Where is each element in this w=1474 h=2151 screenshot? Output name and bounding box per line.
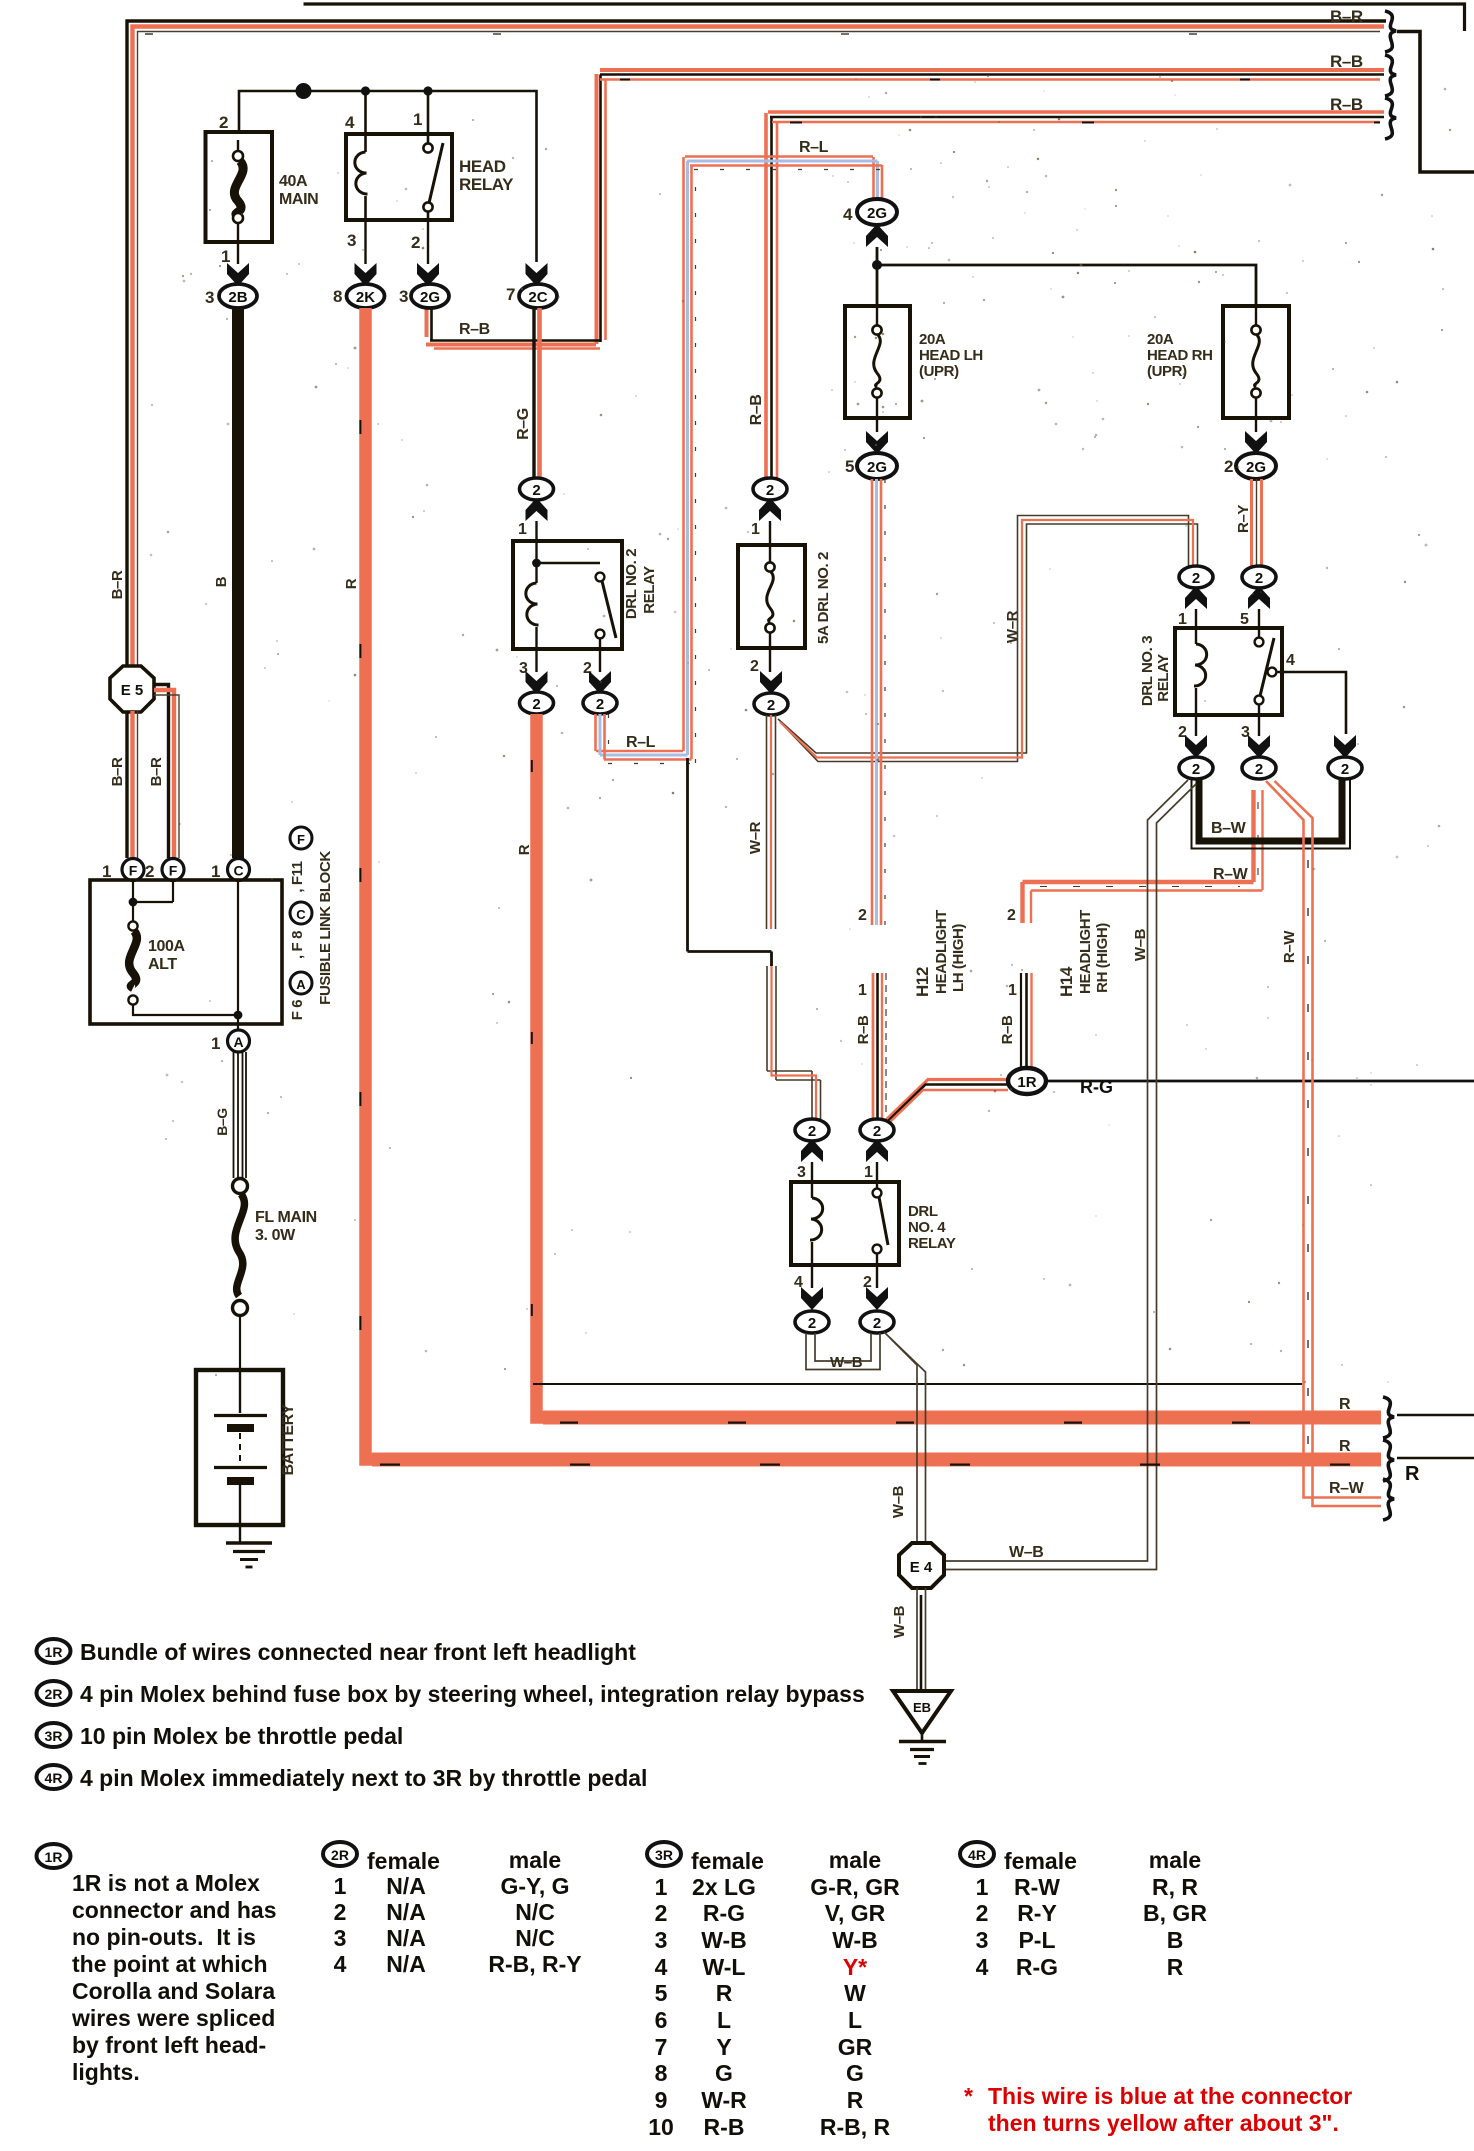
connector circle F2: [162, 859, 184, 881]
svg-text:G: G: [846, 2060, 864, 2086]
svg-text:V, GR: V, GR: [825, 1900, 886, 1926]
fusible link side label F6A F8C F11F: [289, 827, 312, 1020]
relay HEAD RELAY: [346, 134, 514, 220]
wire B (2B to fusible link C): [232, 308, 244, 858]
svg-text:5: 5: [655, 1980, 668, 2006]
svg-text:A: A: [296, 977, 306, 992]
table 1R oval: [37, 1844, 71, 1868]
svg-text:N/A: N/A: [386, 1951, 426, 1977]
svg-text:3R: 3R: [45, 1728, 63, 1744]
relay DRL NO.3: [1175, 628, 1346, 734]
connector arrow up (DRL4 pin3): [801, 1139, 823, 1162]
brace R lower: [1383, 1440, 1394, 1481]
svg-text:C: C: [296, 907, 306, 922]
svg-text:, F11: , F11: [289, 861, 306, 892]
junction big dot: [296, 83, 312, 99]
svg-text:2: 2: [532, 482, 540, 499]
svg-text:1: 1: [751, 521, 760, 538]
connector oval 2 (5A pin2): [754, 693, 788, 715]
svg-text:2: 2: [1341, 761, 1349, 778]
svg-text:(UPR): (UPR): [1147, 363, 1187, 380]
svg-text:5: 5: [1240, 611, 1249, 628]
svg-text:1: 1: [102, 862, 111, 881]
wire 2G bus to fuses: [877, 247, 1256, 306]
svg-text:W–B: W–B: [890, 1485, 907, 1518]
svg-text:female: female: [691, 1848, 764, 1874]
connector oval 2 (DRL2 pin3): [520, 692, 554, 714]
svg-text:1: 1: [858, 982, 867, 999]
svg-text:F: F: [129, 863, 138, 879]
svg-text:LH (HIGH): LH (HIGH): [950, 924, 967, 992]
wire W-R (5A to DRL3, diagonal+up): [778, 516, 1198, 762]
wire W-B (DRL3 pin2 to E4 horizontal): [944, 780, 1196, 1570]
connector arrow 2K: [355, 263, 377, 286]
note 1R header oval: [37, 1639, 71, 1663]
svg-text:R: R: [343, 578, 360, 589]
scan dash artifacts: [145, 34, 1380, 1465]
fusible link internals 100A ALT: [128, 880, 242, 1030]
svg-text:100A: 100A: [148, 938, 185, 955]
connector oval 2 (DRL3 pin4): [1328, 757, 1362, 779]
svg-text:N/C: N/C: [515, 1899, 555, 1925]
connector oval 2G (bottom of LH fuse): [857, 453, 897, 479]
svg-text:20A: 20A: [919, 331, 946, 348]
connector oval 2G (bottom of RH fuse): [1236, 453, 1276, 479]
svg-text:3: 3: [347, 231, 356, 250]
svg-text:BATTERY: BATTERY: [280, 1404, 297, 1476]
svg-text:6: 6: [655, 2007, 668, 2033]
svg-text:1: 1: [976, 1874, 989, 1900]
svg-text:B, GR: B, GR: [1143, 1900, 1207, 1926]
svg-text:2B: 2B: [228, 289, 247, 306]
svg-text:R: R: [516, 844, 533, 855]
wire 40A to 2B: [237, 242, 239, 264]
svg-text:GR: GR: [838, 2034, 873, 2060]
brace B-R: [1385, 11, 1396, 52]
svg-text:G-Y, G: G-Y, G: [500, 1873, 569, 1899]
svg-text:C: C: [233, 863, 243, 879]
svg-text:B: B: [213, 576, 230, 587]
svg-text:E 4: E 4: [910, 1559, 933, 1576]
svg-text:1: 1: [1178, 611, 1187, 628]
wire W-B (DRL4 pin2 to E4): [884, 1332, 926, 1543]
svg-text:DRL NO. 2: DRL NO. 2: [623, 549, 640, 619]
svg-text:R, R: R, R: [1152, 1874, 1198, 1900]
svg-text:3: 3: [976, 1927, 989, 1953]
connector circle A: [228, 1030, 250, 1052]
svg-text:2: 2: [596, 696, 604, 713]
svg-text:R-B, R: R-B, R: [820, 2114, 891, 2140]
wire 5A pin2 down: [769, 648, 771, 672]
svg-text:1: 1: [518, 521, 527, 538]
svg-text:1: 1: [413, 110, 422, 129]
black line after upper brace: [1397, 1414, 1474, 1417]
connector arrow up (5A pin1): [759, 498, 781, 521]
junction dot: [361, 86, 370, 95]
connector circle C: [228, 859, 250, 881]
connector oval 2 (DRL4 pin3 top): [795, 1119, 829, 1141]
connector arrow (2 2G): [1245, 431, 1267, 454]
connector arrow 2G: [417, 263, 439, 286]
svg-text:4: 4: [843, 205, 853, 224]
junction dot: [423, 86, 432, 95]
wire R-B no2 (from fuse 5A up to right): [766, 112, 1384, 478]
wire R (DRL2 pin3 down to upper R horizontal): [537, 714, 1382, 1418]
connector arrow (DRL3 pin3): [1248, 735, 1270, 758]
svg-text:2: 2: [411, 233, 420, 252]
table 2R oval: [323, 1842, 357, 1866]
connector oval 2G (top of 20A LH): [857, 199, 897, 225]
svg-text:8: 8: [655, 2060, 668, 2086]
svg-text:W–R: W–R: [1004, 610, 1021, 643]
svg-text:R–L: R–L: [626, 734, 656, 751]
svg-text:2: 2: [655, 1900, 668, 1926]
svg-text:HEAD: HEAD: [459, 157, 506, 176]
svg-text:R–B: R–B: [1330, 52, 1363, 71]
svg-text:R–B: R–B: [748, 395, 765, 426]
connector arrow (DRL4 pin4): [801, 1287, 823, 1310]
black line after lower brace: [1397, 1457, 1474, 1460]
svg-text:male: male: [829, 1847, 881, 1873]
brace R-W: [1383, 1479, 1394, 1520]
connector oval 2 (DRL3 pin2): [1179, 757, 1213, 779]
svg-text:R–B: R–B: [999, 1015, 1016, 1044]
connector arrow (DRL3 pin2): [1185, 735, 1207, 758]
svg-text:R: R: [716, 1980, 733, 2006]
svg-text:connector and has: connector and has: [72, 1897, 276, 1923]
svg-text:3: 3: [797, 1164, 806, 1181]
svg-text:EB: EB: [913, 1700, 931, 1715]
svg-text:DRL NO. 3: DRL NO. 3: [1139, 636, 1156, 706]
wires DRL4 pins down: [812, 1265, 877, 1288]
node 1R: [1008, 1068, 1046, 1094]
svg-text:F 6: F 6: [289, 1000, 306, 1021]
svg-text:RELAY: RELAY: [1155, 654, 1172, 702]
bus wire from 40A to HEAD RELAY and 2C: [239, 91, 537, 262]
connector oval 2 (above DRL2 pin1): [520, 478, 554, 500]
svg-text:B–W: B–W: [1211, 820, 1247, 837]
svg-text:B: B: [1167, 1927, 1184, 1953]
connector arrow up (DRL3 pin5): [1248, 586, 1270, 609]
svg-text:3: 3: [334, 1925, 347, 1951]
connector arrow 2C: [526, 263, 548, 286]
wires DRL3 pins down: [1196, 715, 1259, 736]
fuse 5A DRL NO.2: [738, 545, 805, 648]
svg-text:2: 2: [145, 862, 154, 881]
svg-text:2: 2: [1224, 457, 1233, 476]
connector arrow up (2G): [866, 224, 888, 247]
svg-text:N/A: N/A: [386, 1925, 426, 1951]
brace R-B no2: [1385, 98, 1396, 139]
svg-text:4: 4: [655, 1954, 668, 1980]
svg-text:3: 3: [655, 1927, 668, 1953]
svg-text:R-G: R-G: [703, 1900, 745, 1926]
table 4R: [976, 1847, 1208, 1980]
svg-text:1: 1: [221, 247, 230, 266]
svg-text:4 pin Molex behind fuse box by: 4 pin Molex behind fuse box by steering …: [80, 1681, 865, 1707]
svg-text:1: 1: [864, 1164, 873, 1181]
svg-text:40A: 40A: [279, 173, 308, 190]
wire R-G (2C down): [534, 308, 540, 478]
wire black to right edge (after B-R brace): [1397, 32, 1474, 173]
svg-text:4: 4: [976, 1954, 989, 1980]
wire R-B no1 (from 2G oval up to right): [426, 70, 1384, 349]
table 2R: [334, 1847, 582, 1977]
svg-text:2: 2: [334, 1899, 347, 1925]
wire R-W (DRL3 pin3 to H14 pin2): [1023, 790, 1263, 923]
octagon E5: [110, 666, 154, 712]
wire R-B (H14 pin1 down to 1R): [1021, 973, 1032, 1068]
svg-text:3. 0W: 3. 0W: [255, 1227, 296, 1244]
connector arrow (DRL4 pin2): [866, 1287, 888, 1310]
svg-text:then turns yellow after about: then turns yellow after about 3".: [988, 2110, 1339, 2136]
svg-text:DRL: DRL: [908, 1203, 938, 1220]
svg-text:2: 2: [1007, 907, 1016, 924]
svg-text:1: 1: [334, 1873, 347, 1899]
wire W-B (E4 down to EB): [917, 1588, 926, 1690]
svg-text:4R: 4R: [968, 1847, 986, 1863]
wire W-R (5A to DRL4 pin3, vertical): [767, 715, 821, 1119]
scan noise speckles: [150, 75, 1452, 1383]
svg-text:4: 4: [334, 1951, 347, 1977]
svg-text:R: R: [1339, 1438, 1351, 1455]
connector oval 2C: [519, 284, 557, 308]
fuse FL MAIN 3.0W: [233, 1179, 317, 1316]
svg-text:(UPR): (UPR): [919, 363, 959, 380]
svg-text:B–R: B–R: [109, 757, 126, 786]
wire RH fuse to 2-2G: [1255, 418, 1257, 432]
svg-text:W–B: W–B: [1009, 1544, 1043, 1561]
connector arrow (DRL3 pin4): [1334, 735, 1356, 758]
svg-text:H12: H12: [913, 967, 932, 997]
svg-text:Bundle of wires connected near: Bundle of wires connected near front lef…: [80, 1639, 636, 1665]
svg-text:2: 2: [219, 113, 228, 132]
connector oval 2G: [411, 284, 449, 308]
connector oval 2 (DRL4 pin4): [795, 1311, 829, 1333]
svg-text:R-G: R-G: [1080, 1077, 1113, 1097]
svg-text:8: 8: [333, 287, 342, 306]
svg-text:A: A: [233, 1034, 243, 1050]
fuse 20A HEAD LH (UPR): [845, 306, 983, 418]
svg-text:B–R: B–R: [148, 757, 165, 786]
svg-text:FUSIBLE LINK BLOCK: FUSIBLE LINK BLOCK: [317, 851, 334, 1005]
svg-text:W–B: W–B: [1132, 928, 1149, 961]
wire B-R main frame (left vertical + top horizontal): [127, 21, 1386, 668]
wire R-B (H12 pin1 down to DRL4 pin1 oval): [873, 973, 886, 1119]
wire R (2K down to lower R horizontal to right): [366, 308, 1382, 1460]
svg-text:2: 2: [766, 482, 774, 499]
svg-text:2G: 2G: [420, 289, 440, 306]
svg-text:male: male: [1149, 1847, 1201, 1873]
svg-text:by front left head-: by front left head-: [72, 2032, 266, 2058]
svg-text:2R: 2R: [45, 1686, 63, 1702]
svg-text:H14: H14: [1057, 966, 1076, 997]
svg-text:R–G: R–G: [515, 408, 532, 440]
svg-text:2: 2: [532, 696, 540, 713]
svg-text:B–R: B–R: [1330, 7, 1363, 26]
connector oval 2 (above 5A fuse): [753, 478, 787, 500]
svg-text:2: 2: [858, 907, 867, 924]
ground (battery): [226, 1525, 272, 1567]
svg-text:B–G: B–G: [214, 1108, 230, 1136]
svg-text:2: 2: [1255, 761, 1263, 778]
wires into DRL3: [1196, 609, 1259, 628]
svg-text:*: *: [964, 2083, 973, 2109]
connector arrow up (DRL2 pin1): [526, 498, 548, 521]
svg-text:4: 4: [345, 113, 355, 132]
svg-text:N/A: N/A: [386, 1899, 426, 1925]
svg-text:RELAY: RELAY: [908, 1235, 956, 1252]
svg-text:2: 2: [750, 658, 759, 675]
svg-text:MAIN: MAIN: [279, 191, 318, 208]
svg-text:RELAY: RELAY: [641, 566, 658, 614]
wire into 5A fuse: [769, 521, 771, 545]
wire B-W (DRL3 pin2 oval to pin4 oval): [1192, 779, 1351, 849]
wires DRL2 pins down: [537, 649, 601, 672]
svg-text:no pin-outs. It is: no pin-outs. It is: [72, 1924, 256, 1950]
svg-text:2: 2: [767, 697, 775, 714]
connector arrow (DRL2 pin3): [526, 671, 548, 694]
svg-text:ALT: ALT: [148, 956, 177, 973]
svg-text:R–Y: R–Y: [1235, 505, 1252, 533]
svg-text:L: L: [717, 2007, 731, 2033]
svg-text:wires were spliced: wires were spliced: [71, 2005, 275, 2031]
svg-text:HEAD RH: HEAD RH: [1147, 347, 1213, 364]
svg-text:lights.: lights.: [72, 2059, 140, 2085]
svg-text:2: 2: [1192, 761, 1200, 778]
svg-text:R: R: [1405, 1463, 1420, 1485]
svg-text:3: 3: [205, 288, 214, 307]
svg-text:N/A: N/A: [386, 1873, 426, 1899]
top thin line: [304, 4, 1465, 31]
connector arrow 2B: [227, 263, 249, 286]
relay DRL NO.2: [513, 541, 622, 649]
fuse 40A MAIN: [206, 132, 319, 242]
svg-text:R-Y: R-Y: [1017, 1900, 1057, 1926]
svg-text:2: 2: [808, 1123, 816, 1140]
connector oval 2 (DRL4 pin1 top): [860, 1119, 894, 1141]
svg-text:W-B: W-B: [701, 1927, 747, 1953]
svg-text:female: female: [367, 1848, 440, 1874]
svg-text:R-B: R-B: [704, 2114, 745, 2140]
svg-text:3: 3: [399, 287, 408, 306]
svg-text:2C: 2C: [528, 289, 547, 306]
ground EB triangle: [893, 1691, 951, 1764]
svg-text:FL MAIN: FL MAIN: [255, 1209, 317, 1226]
svg-text:P-L: P-L: [1018, 1927, 1055, 1953]
svg-text:HEADLIGHT: HEADLIGHT: [1077, 910, 1094, 994]
wire R-W (DRL3 pin3 diagonal down to bottom right): [1266, 781, 1381, 1506]
svg-text:This wire is blue at the conne: This wire is blue at the connector: [988, 2083, 1352, 2109]
connector oval 2 (DRL3 pin5 top): [1242, 566, 1276, 588]
wire LH fuse to 5-2G: [876, 418, 878, 432]
svg-text:Y: Y: [716, 2034, 731, 2060]
svg-text:HEAD LH: HEAD LH: [919, 347, 983, 364]
svg-text:2: 2: [976, 1900, 989, 1926]
svg-text:R-G: R-G: [1016, 1954, 1058, 1980]
connector arrow (5 2G): [866, 431, 888, 454]
svg-text:F: F: [169, 863, 178, 879]
svg-text:4: 4: [1286, 652, 1295, 669]
svg-text:2x LG: 2x LG: [692, 1874, 756, 1900]
svg-text:7: 7: [655, 2034, 668, 2060]
svg-text:E 5: E 5: [121, 682, 144, 699]
wire R-L (DRL2 pin2 to 2G oval): [596, 157, 886, 764]
battery: [196, 1370, 283, 1525]
svg-text:Corolla and Solara: Corolla and Solara: [72, 1978, 275, 2004]
svg-text:1R is not a Molex: 1R is not a Molex: [72, 1870, 260, 1896]
svg-text:B–R: B–R: [109, 570, 126, 599]
svg-text:2G: 2G: [867, 459, 887, 476]
svg-text:2: 2: [1255, 570, 1263, 587]
svg-text:R–B: R–B: [1330, 95, 1363, 114]
svg-text:1: 1: [211, 862, 220, 881]
connector oval 2 (DRL3 pin1 top): [1179, 566, 1213, 588]
connector oval 2 (DRL3 pin3): [1242, 757, 1276, 779]
svg-text:G-R, GR: G-R, GR: [810, 1874, 900, 1900]
svg-text:2G: 2G: [1246, 459, 1266, 476]
connector arrow (5A pin2): [760, 671, 782, 694]
note 2R header oval: [37, 1681, 71, 1705]
svg-text:5A DRL NO. 2: 5A DRL NO. 2: [815, 552, 832, 644]
connector arrow up (DRL3 pin1): [1185, 586, 1207, 609]
wire R-G (1R to right edge): [1046, 1080, 1474, 1083]
fusible link block box: [90, 880, 282, 1024]
svg-text:10: 10: [648, 2114, 674, 2140]
svg-text:Y*: Y*: [843, 1954, 867, 1980]
svg-text:1R: 1R: [45, 1644, 63, 1660]
wire W-B (DRL4 pin4 U to pin2): [806, 1333, 880, 1370]
brace R-B no1: [1385, 55, 1396, 96]
svg-text:, F 8: , F 8: [289, 931, 306, 959]
svg-text:R–L: R–L: [799, 139, 829, 156]
reroute black line (R-L corner to W-R gap): [688, 758, 772, 966]
connector arrow up (DRL4 pin1): [866, 1139, 888, 1162]
svg-text:2: 2: [808, 1315, 816, 1332]
relay DRL NO.4: [791, 1182, 956, 1265]
connector oval 2K: [347, 284, 385, 308]
svg-text:2: 2: [1192, 570, 1200, 587]
svg-text:R–B: R–B: [855, 1015, 872, 1044]
table 3R: [648, 1847, 900, 2140]
svg-text:2K: 2K: [356, 289, 375, 306]
svg-text:RELAY: RELAY: [459, 175, 514, 194]
svg-text:R–W: R–W: [1213, 866, 1249, 883]
fuse 20A HEAD RH (UPR): [1147, 306, 1289, 418]
svg-text:10 pin Molex be throttle pedal: 10 pin Molex be throttle pedal: [80, 1723, 403, 1749]
svg-text:W–B: W–B: [830, 1354, 863, 1371]
svg-text:male: male: [509, 1847, 561, 1873]
svg-text:RH (HIGH): RH (HIGH): [1094, 923, 1111, 993]
svg-text:R: R: [1339, 1396, 1351, 1413]
svg-text:R-B, R-Y: R-B, R-Y: [488, 1951, 581, 1977]
wire B-G (A to FL MAIN): [234, 1052, 247, 1178]
svg-text:5: 5: [845, 457, 854, 476]
table 4R oval: [960, 1842, 994, 1866]
junction dot: [872, 260, 882, 270]
wire relay pins down: [366, 220, 429, 264]
svg-text:W: W: [844, 1980, 866, 2006]
svg-text:2: 2: [873, 1315, 881, 1332]
connector oval 2B: [219, 284, 257, 308]
wire into relay: [535, 521, 537, 541]
svg-text:the point at which: the point at which: [72, 1951, 268, 1977]
wire R-B (1R left to DRL4 pin1 oval diagonal): [882, 1080, 1009, 1131]
svg-text:3R: 3R: [655, 1847, 673, 1863]
connector oval 2 (DRL2 pin2): [583, 692, 617, 714]
svg-text:1: 1: [211, 1034, 220, 1053]
thin dark line above upper R: [533, 1383, 1302, 1385]
